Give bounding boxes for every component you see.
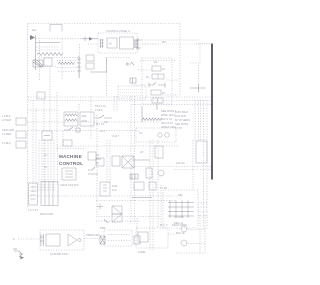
arrow bus y197 [132, 197, 152, 199]
svg-text:2C: 2C [146, 75, 149, 79]
wire y169 [174, 169, 211, 171]
MACHINE CONTROL border [57, 148, 84, 150]
svg-text:1PH SUP: 1PH SUP [175, 114, 186, 118]
wire stub right y80 [166, 79, 178, 81]
wire main left bus solid [35, 35, 37, 70]
power bus dark bar [211, 44, 213, 180]
component cluster C2 [112, 206, 122, 214]
wire top feed solid segment [82, 38, 98, 40]
svg-text:1MA: 1MA [112, 184, 118, 188]
wire right border dashed [179, 24, 181, 96]
vertical x205 bottom [204, 215, 206, 253]
wire y71 [58, 71, 76, 73]
wire y44 dotted to bar [142, 43, 210, 45]
box B7 [149, 182, 156, 190]
wire amp to pump [84, 238, 100, 240]
node junction tick [84, 37, 86, 42]
svg-text:TO MTR: TO MTR [174, 215, 184, 219]
wire y40 to right [142, 39, 200, 41]
terminal strip box dashed [163, 190, 198, 228]
resistor R1 zigzag band [37, 53, 63, 56]
svg-text:L1 BLK: L1 BLK [2, 114, 11, 118]
cluster near x100 y205 [97, 204, 103, 210]
grid box G1 [118, 86, 146, 99]
wire y66 [42, 66, 57, 68]
relay stack box dashed [142, 58, 172, 104]
circle at tip [78, 238, 81, 241]
svg-text:T1 RED: T1 RED [2, 132, 11, 136]
component box B2 [63, 140, 72, 146]
svg-text:GD: GD [13, 247, 17, 251]
wire drop x97 [96, 115, 98, 216]
op-amp A1 triangle [68, 234, 77, 246]
resistor R3 zigzag [142, 118, 162, 121]
module U3 box [120, 37, 134, 49]
contact marks m1 [126, 62, 134, 66]
svg-text:4 TYP: 4 TYP [175, 126, 182, 130]
svg-text:GRD GRN: GRD GRN [2, 128, 14, 132]
wire stub right y95 [162, 94, 178, 96]
wire out CB1 right [137, 43, 160, 45]
wire drop x200 [199, 44, 201, 64]
contact marks S4 [88, 167, 98, 174]
svg-text:LR: LR [154, 60, 157, 64]
coil L2 vertical [77, 56, 81, 78]
svg-text:E: E [13, 237, 15, 241]
svg-text:3 44 7: 3 44 7 [112, 134, 120, 138]
svg-text:W1R: W1R [82, 119, 88, 123]
svg-text:MACHINE: MACHINE [59, 154, 82, 159]
wire y88 junction [190, 84, 206, 92]
contact pair S2 [88, 152, 96, 160]
wire y253 [176, 252, 205, 254]
horizontal bus y97 [28, 96, 211, 98]
component K7 dark [155, 146, 163, 158]
wire drop x57 [56, 92, 58, 150]
terminal TB-C [16, 141, 26, 148]
dashed box starter unit [40, 230, 84, 250]
timer box T1 dashed [136, 128, 176, 142]
svg-text:WHT-6 2C: WHT-6 2C [161, 121, 173, 125]
relay K6 [152, 98, 163, 103]
wire y58 [38, 57, 78, 59]
relay K4 [152, 74, 164, 79]
svg-text:SURE: SURE [138, 250, 145, 254]
center transformer X2 [122, 156, 134, 168]
module WA box [64, 112, 78, 126]
svg-text:BLK-2 1C: BLK-2 1C [161, 117, 172, 121]
svg-text:2 1B 6: 2 1B 6 [95, 108, 103, 112]
bus y200 [96, 200, 176, 202]
wire stub y42 solid [36, 42, 60, 44]
junction blob x137 [134, 236, 140, 244]
wire y160 [132, 159, 150, 161]
relay K3 [152, 66, 161, 71]
svg-text:BLK 16: BLK 16 [176, 231, 185, 235]
wire drop x157 [156, 104, 158, 110]
wire drop x134 [134, 96, 136, 224]
wire into CB1 left [88, 43, 98, 45]
connector J1 top-left bracket [50, 25, 62, 32]
terminal box TBx [86, 63, 94, 69]
switch box SW1 [62, 168, 76, 180]
svg-text:PRESS SW: PRESS SW [86, 233, 100, 237]
wire stub left y85 [132, 84, 148, 86]
lamp DS3 [158, 170, 164, 176]
grid rows [120, 90, 144, 96]
wire y60 right [140, 60, 176, 62]
wire x193 drop [192, 140, 194, 190]
wire drop x107 [106, 140, 108, 184]
long bus y196 [28, 195, 182, 197]
component K1 hatched [33, 60, 43, 67]
wire drop x150 [149, 140, 151, 250]
strip row 3 [168, 210, 194, 214]
wire drop x50 [49, 68, 51, 100]
svg-text:41 5: 41 5 [100, 129, 106, 133]
svg-text:11A: 11A [112, 188, 117, 192]
svg-text:SC: SC [109, 42, 113, 46]
svg-text:SEE NOTE: SEE NOTE [175, 122, 188, 126]
wire drop x63 [62, 131, 64, 146]
lamp DS5 [181, 240, 187, 246]
wire drop x91 [90, 96, 92, 140]
wire stub y50 [36, 49, 60, 51]
verticals x158 x161 [157, 140, 159, 228]
svg-text:CONTROL: CONTROL [59, 161, 83, 166]
relay K5 [151, 90, 161, 95]
motor box M2 [100, 182, 110, 196]
strip row 2 [168, 205, 194, 209]
wire y43 into bar [196, 43, 211, 45]
connector bars left [40, 234, 44, 246]
strip row 4 [168, 214, 194, 218]
strip row 1 [168, 201, 194, 205]
svg-text:115V 60HZ: 115V 60HZ [175, 110, 188, 114]
wire y244 [188, 243, 205, 245]
small box B4 [146, 168, 152, 178]
wire drop x153 [152, 140, 154, 250]
terminal TB-A [16, 118, 26, 125]
contact row S1 [149, 83, 165, 88]
svg-text:43210 CAS,81C: 43210 CAS,81C [60, 183, 79, 187]
wire right drop x62 [61, 39, 63, 81]
terminal TB-B [16, 131, 26, 138]
horizontal bus y100 [28, 100, 211, 102]
wire drop x114 [113, 96, 115, 112]
contact arrow under WA [64, 127, 80, 132]
starter box ST1 [46, 234, 60, 246]
box B6 [134, 182, 144, 190]
svg-text:2Z: 2Z [140, 150, 143, 154]
wire y230 [188, 229, 205, 231]
terminal box TA [86, 55, 94, 61]
wire drop x79b [78, 104, 80, 112]
relay contact M1 [95, 115, 112, 118]
svg-text:PMP: PMP [100, 226, 106, 230]
wire y146 [57, 145, 178, 147]
svg-text:TB3: TB3 [96, 157, 101, 161]
wire y166 [132, 166, 211, 168]
svg-text:1M: 1M [104, 120, 108, 124]
wire y63 right [190, 62, 200, 64]
connector pins right CB1 [134, 39, 138, 48]
WA zigzag rows [65, 114, 77, 121]
resistor R2 zigzag [58, 62, 75, 65]
wire top feed y39 [62, 38, 82, 40]
switch box SW2 [138, 232, 148, 242]
ground symbol [14, 251, 23, 257]
wire left border dashed [27, 24, 29, 208]
svg-text:L2 WHT: L2 WHT [2, 118, 12, 122]
component cluster C2b [112, 214, 122, 222]
wire y60 [57, 60, 78, 62]
left bus vertical wires [32, 100, 34, 192]
svg-text:GRN-8 GND: GRN-8 GND [161, 125, 176, 129]
svg-text:24V AC: 24V AC [176, 161, 185, 165]
wire y130 [28, 130, 140, 132]
svg-text:TB2: TB2 [178, 193, 183, 197]
svg-text:2DK: 2DK [82, 114, 87, 118]
module FA box [80, 112, 94, 126]
small box B3 [112, 156, 120, 166]
fuse mark [44, 135, 50, 137]
relay K2 box [44, 58, 52, 66]
connector block CN1 [41, 182, 58, 206]
dense blob under transformer [130, 174, 138, 179]
wire under CB1 [105, 57, 130, 59]
wire y110 [28, 109, 57, 111]
wire drop x79 [79, 44, 81, 78]
svg-text:MA: MA [162, 40, 166, 44]
wires in pump box [108, 235, 130, 241]
wire stub left y70 [138, 69, 152, 71]
contact marks m2 [130, 78, 136, 83]
wire stub y47 [36, 46, 58, 48]
lamp DS1 [158, 133, 162, 137]
fuse box F2 [42, 131, 52, 140]
switch dashed box [136, 228, 168, 248]
vertical x200 bottom [199, 215, 201, 253]
node junction X1 [136, 38, 142, 50]
svg-text:3C: 3C [162, 91, 165, 95]
svg-text:1C: 1C [162, 67, 165, 71]
wire y67 [57, 67, 78, 69]
svg-text:4A PUMP ASSY: 4A PUMP ASSY [50, 252, 69, 256]
connector pins left CB1 [100, 39, 104, 48]
wires out of strip [198, 202, 207, 204]
svg-text:MAIN PWR: MAIN PWR [40, 212, 53, 216]
junction cluster pump inlet [100, 236, 105, 244]
node arrow B [89, 37, 93, 41]
wire y122 [28, 121, 160, 123]
wire x198 drop [198, 65, 200, 92]
junction box JB1 tall [29, 183, 38, 205]
wire stub y38 [36, 38, 62, 40]
JB1 inner marks [31, 187, 36, 199]
relay U2 box [107, 38, 117, 48]
right verticals [194, 100, 196, 140]
wire y216 [96, 216, 160, 218]
pump dashed box [104, 230, 132, 246]
right box B5 [196, 141, 207, 163]
relay box K8 at border [37, 92, 45, 99]
wire corner solid [90, 58, 107, 72]
wire top border dashed [28, 23, 181, 25]
wire drop x142 [141, 106, 143, 122]
svg-text:RED 14: RED 14 [174, 221, 184, 225]
hook [104, 219, 109, 222]
svg-text:TD: TD [139, 131, 143, 135]
wire drop x110 [109, 140, 111, 184]
wire right of switch [168, 233, 176, 235]
wire drop x106 [106, 72, 108, 96]
svg-text:1 2 3 4 5: 1 2 3 4 5 [28, 208, 39, 212]
lamp DS2 [165, 133, 169, 137]
wire drop x131 [130, 96, 132, 224]
wire from E [18, 238, 40, 240]
svg-text:WIRE 14GA: WIRE 14GA [161, 113, 175, 117]
wire y221 [96, 220, 140, 222]
svg-text:T2 BLU: T2 BLU [2, 141, 11, 145]
wire drop x117 [116, 96, 118, 112]
lamp DS4 [181, 226, 187, 232]
svg-text:BY OTHERS: BY OTHERS [175, 118, 190, 122]
svg-text:TB1 4 1A: TB1 4 1A [95, 104, 106, 108]
svg-text:M 1 OL: M 1 OL [96, 122, 105, 126]
node arrow A [30, 35, 35, 40]
svg-text:CONTROL PANEL A: CONTROL PANEL A [106, 29, 130, 33]
wire y104 [132, 104, 211, 106]
vertical x137 [136, 218, 138, 236]
wire drop x39 [39, 40, 41, 80]
control box CB1 dashed [98, 33, 137, 53]
contact pair S3 [96, 158, 104, 166]
